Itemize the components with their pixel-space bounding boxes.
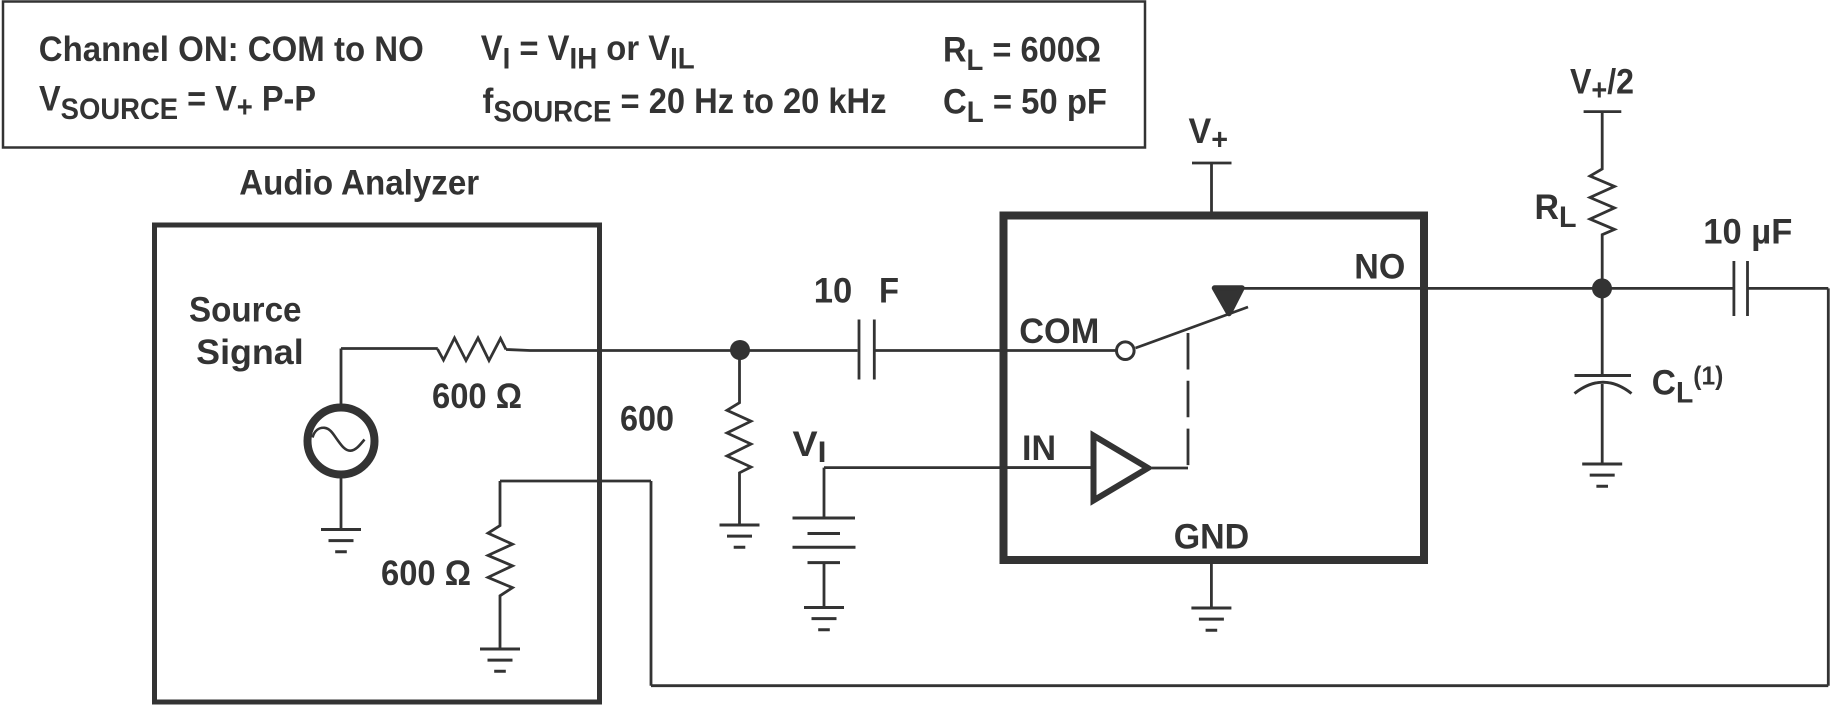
svg-text:10: 10	[814, 271, 853, 311]
svg-text:COM: COM	[1019, 311, 1099, 351]
svg-text:600 Ω: 600 Ω	[432, 376, 522, 416]
svg-text:fSOURCE = 20 Hz to 20 kHz: fSOURCE = 20 Hz to 20 kHz	[483, 81, 887, 129]
svg-text:Source: Source	[189, 290, 302, 330]
svg-text:VI: VI	[793, 424, 827, 469]
svg-text:CL(1): CL(1)	[1652, 361, 1724, 410]
svg-text:IN: IN	[1022, 428, 1056, 468]
svg-text:Channel ON: COM to NO: Channel ON: COM to NO	[39, 29, 424, 69]
svg-text:600 Ω: 600 Ω	[381, 553, 471, 593]
svg-text:CL = 50 pF: CL = 50 pF	[943, 82, 1107, 130]
svg-text:RL = 600Ω: RL = 600Ω	[943, 30, 1101, 78]
svg-text:F: F	[879, 271, 899, 311]
svg-text:VI = VIH or VIL: VI = VIH or VIL	[481, 28, 695, 76]
svg-text:600: 600	[620, 399, 674, 439]
svg-text:RL: RL	[1535, 187, 1577, 234]
svg-text:NO: NO	[1354, 247, 1405, 287]
svg-text:10 µF: 10 µF	[1703, 212, 1792, 252]
svg-text:V+: V+	[1189, 111, 1229, 157]
svg-text:Audio Analyzer: Audio Analyzer	[239, 163, 479, 203]
svg-text:GND: GND	[1174, 517, 1250, 557]
svg-text:V+/2: V+/2	[1570, 62, 1634, 108]
svg-text:VSOURCE = V+ P-P: VSOURCE = V+ P-P	[39, 79, 316, 127]
svg-text:Signal: Signal	[196, 332, 303, 372]
